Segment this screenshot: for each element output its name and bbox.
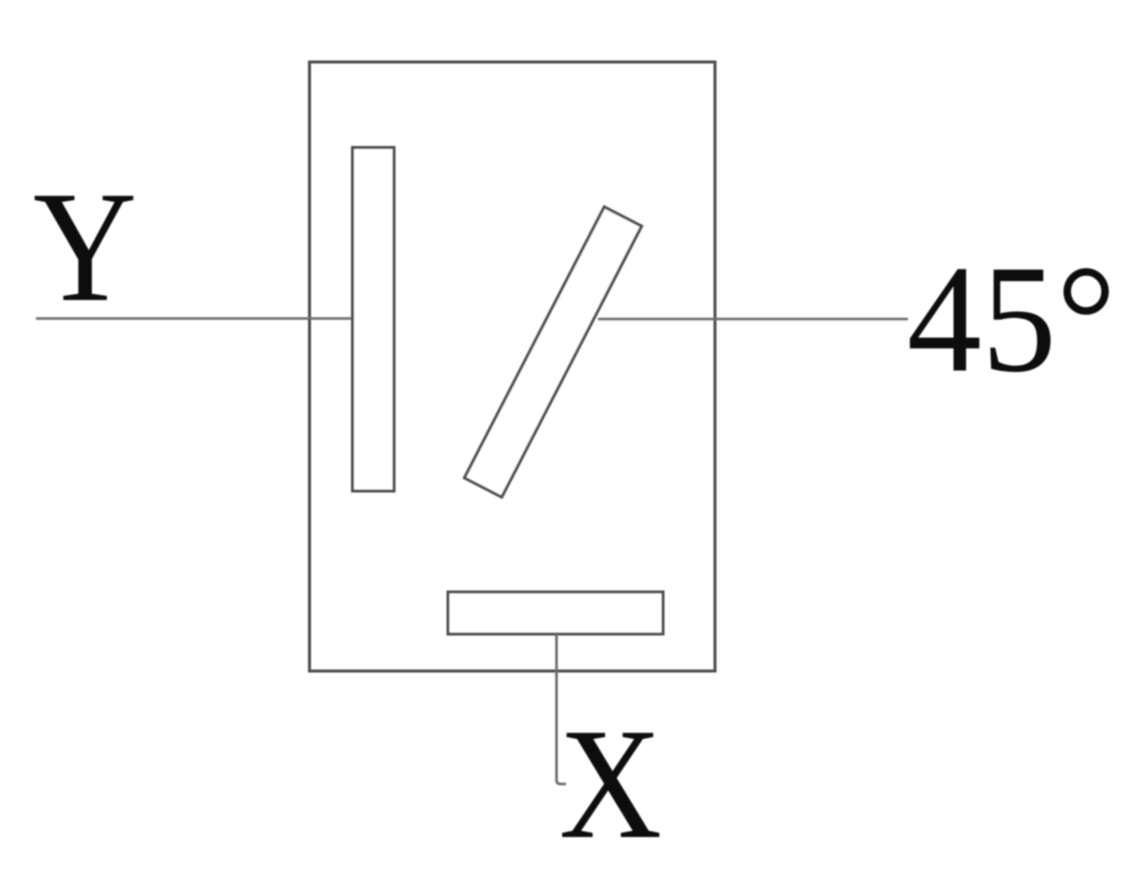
wire: input line Y	[36, 317, 352, 320]
enclosure box	[310, 62, 716, 671]
svg-text:45°: 45°	[907, 233, 1116, 404]
svg-text:X: X	[559, 695, 662, 872]
svg-text:Y: Y	[33, 158, 137, 334]
wire: output line to 45° label	[598, 318, 908, 321]
vertical polarizer element (Y)	[353, 148, 395, 492]
wire: leader line down to X label	[557, 634, 567, 784]
horizontal polarizer element (X)	[448, 592, 663, 634]
tilted polarizer element (45°)	[464, 207, 641, 497]
